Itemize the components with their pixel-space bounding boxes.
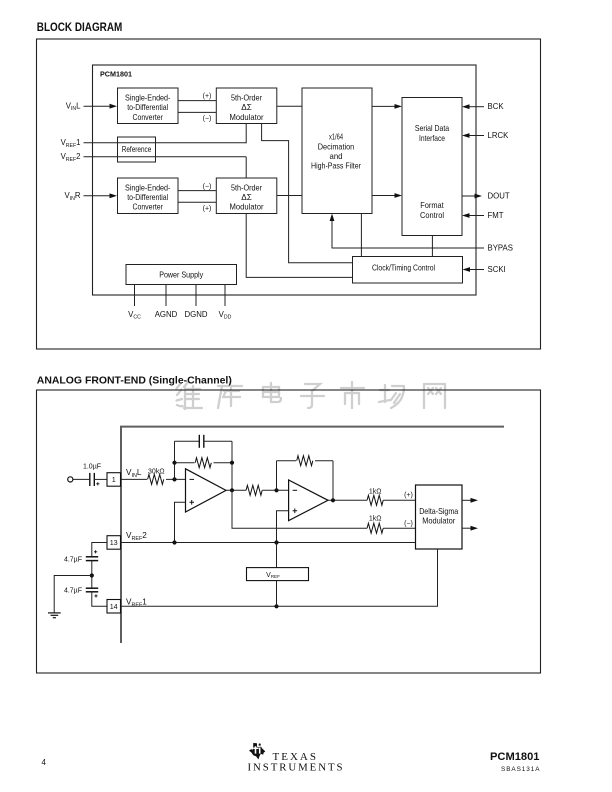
svg-text:(+): (+): [404, 492, 413, 499]
svg-text:Single-Ended-: Single-Ended-: [125, 94, 171, 103]
svg-text:4.7µF: 4.7µF: [64, 556, 82, 563]
wire opamp1 out down to minus line: [232, 490, 367, 528]
svg-text:SCKI: SCKI: [488, 265, 506, 274]
svg-text:Interface: Interface: [419, 134, 445, 143]
svg-text:1: 1: [112, 475, 116, 484]
svg-text:14: 14: [110, 602, 118, 611]
svg-text:and: and: [330, 152, 343, 161]
node VREF1: [61, 138, 247, 149]
svg-text:Serial Data: Serial Data: [415, 124, 450, 133]
svg-text:Clock/Timing Control: Clock/Timing Control: [372, 264, 435, 273]
wire pin1 to resistor: [121, 478, 148, 480]
svg-text:13: 13: [110, 538, 118, 547]
wire tee to ground: [54, 576, 92, 613]
svg-text:Modulator: Modulator: [230, 113, 264, 122]
wire cap to pin1: [94, 478, 107, 480]
capacitor C4 4.7uF: [64, 587, 98, 597]
svg-text:1kΩ: 1kΩ: [369, 488, 382, 495]
svg-text:to-Differential: to-Differential: [127, 103, 168, 112]
wire opamp1 output: [226, 489, 246, 491]
wire feedback vertical left: [174, 441, 176, 479]
node LRCK: [462, 131, 509, 140]
resistor R5 1k plus: [367, 488, 415, 505]
wire AGND pin: [165, 285, 167, 307]
svg-text:5th-Order: 5th-Order: [231, 94, 262, 103]
wire pin13 left to cap: [92, 543, 107, 558]
svg-text:INSTRUMENTS: INSTRUMENTS: [248, 762, 343, 774]
junction dot A: [172, 477, 176, 481]
svg-text:VCC: VCC: [128, 310, 141, 321]
clock U8 Clock/Timing Control: [353, 257, 463, 284]
svg-text:VREF2: VREF2: [61, 152, 81, 163]
svg-text:(−): (−): [203, 116, 212, 123]
wire filter to serial top: [372, 104, 402, 109]
svg-text:SBAS131A: SBAS131A: [501, 766, 540, 773]
wire filter to clock: [360, 214, 362, 257]
reference U3: [118, 137, 156, 162]
node VINL: [66, 102, 117, 113]
junction dot E: [274, 488, 278, 492]
junction dot H: [274, 540, 278, 544]
svg-text:5th-Order: 5th-Order: [231, 183, 262, 192]
wire opamp1 plus to vref2: [175, 502, 186, 542]
capacitor C2 feedback: [175, 435, 233, 448]
resistor R4 feedback2: [277, 456, 334, 466]
svg-text:(+): (+): [203, 93, 212, 100]
svg-text:Decimation: Decimation: [318, 142, 355, 151]
wire box1 to mod1 minus: [178, 112, 216, 122]
svg-text:Reference: Reference: [122, 145, 152, 154]
svg-text:Power Supply: Power Supply: [159, 271, 204, 280]
modulator U5 5th-Order DS (R): [216, 178, 276, 214]
wire VDD pin: [224, 285, 226, 307]
watermark: [177, 382, 446, 409]
wire feedback2 vertical right: [332, 461, 334, 501]
svg-text:Control: Control: [420, 211, 444, 220]
svg-text:PCM1801: PCM1801: [100, 69, 132, 78]
wire DGND pin: [195, 285, 197, 307]
node SCKI: [463, 265, 506, 274]
wire mod2 clock path: [246, 214, 352, 278]
wire opamp2 plus to vref2: [277, 511, 289, 543]
filter U6 decimation: [302, 88, 372, 214]
resistor R3 interstage: [246, 485, 262, 495]
modulator U12 Delta-Sigma: [416, 485, 463, 549]
wire r3 to opamp2: [262, 489, 288, 491]
wire box1 to mod1 plus: [178, 93, 216, 101]
node VREF2: [61, 152, 247, 163]
svg-text:Modulator: Modulator: [230, 203, 264, 212]
wire input to cap: [73, 478, 89, 480]
svg-text:Single-Ended-: Single-Ended-: [125, 183, 171, 192]
svg-text:ANALOG FRONT-END (Single-Chann: ANALOG FRONT-END (Single-Channel): [37, 376, 232, 387]
svg-text:(−): (−): [203, 183, 212, 190]
wire box2 to mod2 plus: [178, 202, 216, 212]
wire mod1 clock path: [262, 124, 353, 263]
svg-text:DOUT: DOUT: [488, 192, 510, 201]
wire feedback2 vertical left: [276, 461, 278, 491]
wire serial to clock: [431, 236, 433, 257]
wire mod2 to filter: [277, 195, 302, 197]
svg-text:VINL: VINL: [126, 468, 142, 479]
wire vref box top: [276, 543, 278, 568]
pin 1: [107, 473, 121, 487]
svg-text:VREF2: VREF2: [126, 531, 147, 542]
junction dot D: [230, 488, 234, 492]
junction dot G: [172, 540, 176, 544]
node DOUT: [462, 192, 510, 201]
svg-text:VINR: VINR: [64, 191, 80, 202]
wire resistor to opamp minus: [166, 478, 186, 480]
svg-text:(+): (+): [203, 206, 212, 213]
pin 13: [107, 536, 121, 550]
node FMT: [462, 211, 504, 220]
svg-text:LRCK: LRCK: [488, 131, 510, 140]
wire opamp2 output: [328, 499, 367, 501]
wire filter to serial bottom: [372, 193, 402, 198]
junction dot C: [230, 461, 234, 465]
svg-text:AGND: AGND: [155, 310, 178, 319]
frame 1: [37, 39, 541, 349]
wire cap3 to gnd tee: [91, 561, 93, 589]
interface U7 serial data / format control: [402, 98, 462, 236]
node BCK: [462, 102, 504, 111]
IC PCM1801 outline: [93, 65, 477, 295]
converter U4 Single-Ended-to-Differential (R): [118, 178, 179, 214]
wire box2 to mod2 minus: [178, 183, 216, 190]
pin 14: [107, 600, 121, 614]
wire cap4 to pin14: [92, 592, 107, 607]
wire ds out minus: [462, 526, 478, 531]
svg-text:BYPAS: BYPAS: [488, 243, 513, 252]
svg-text:Format: Format: [420, 201, 444, 210]
wire mod1 to filter: [277, 105, 302, 107]
junction dot J: [274, 604, 278, 608]
wire ds out plus: [462, 498, 478, 503]
svg-text:30kΩ: 30kΩ: [148, 469, 165, 476]
junction dot I: [90, 573, 94, 577]
op-amp U11: [289, 480, 328, 521]
capacitor C1 1.0uF: [83, 464, 101, 487]
svg-text:1.0µF: 1.0µF: [83, 464, 101, 471]
resistor R1 30k: [148, 469, 165, 485]
logo TI: [249, 743, 265, 760]
svg-text:PCM1801: PCM1801: [490, 751, 540, 763]
node VINR: [64, 191, 117, 202]
svg-text:ΔΣ: ΔΣ: [241, 103, 252, 112]
svg-text:(−): (−): [404, 520, 413, 527]
svg-text:ΔΣ: ΔΣ: [241, 193, 252, 202]
svg-text:Delta-Sigma: Delta-Sigma: [419, 507, 458, 516]
svg-text:High-Pass Filter: High-Pass Filter: [311, 162, 361, 171]
logo TEXAS INSTRUMENTS: [248, 751, 343, 774]
junction dot F: [331, 498, 335, 502]
svg-text:FMT: FMT: [488, 211, 504, 220]
svg-text:1kΩ: 1kΩ: [369, 515, 382, 522]
wire feedback vertical right: [231, 441, 233, 490]
svg-text:Modulator: Modulator: [422, 517, 455, 526]
power U9 Power Supply: [126, 265, 237, 285]
svg-text:DGND: DGND: [185, 310, 208, 319]
ground: [48, 613, 61, 618]
wire vref1 up to mod1: [245, 124, 247, 144]
wire vref2 down to mod2: [245, 157, 247, 178]
capacitor C3 4.7uF: [64, 550, 98, 563]
svg-text:BCK: BCK: [488, 102, 505, 111]
op-amp U10: [186, 469, 227, 512]
modulator U2 5th-Order DS (L): [216, 88, 276, 124]
svg-text:VREF1: VREF1: [61, 138, 81, 149]
wire vref2 rail: [121, 542, 416, 544]
junction dot B: [172, 461, 176, 465]
svg-text:Converter: Converter: [132, 203, 163, 212]
svg-text:VINL: VINL: [66, 102, 81, 113]
svg-text:VDD: VDD: [219, 310, 232, 321]
converter U1 Single-Ended-to-Differential (L): [118, 88, 179, 124]
frame 2: [37, 390, 541, 673]
resistor R6 1k minus: [367, 515, 415, 533]
svg-text:BLOCK DIAGRAM: BLOCK DIAGRAM: [37, 22, 123, 34]
input terminal: [68, 477, 73, 482]
svg-text:x1/64: x1/64: [329, 133, 343, 142]
svg-text:4.7µF: 4.7µF: [64, 587, 82, 594]
IC boundary lines: [121, 427, 504, 643]
resistor R2 feedback: [175, 458, 233, 468]
wire vref1 rail: [121, 549, 438, 606]
reference U13 VREF box: [247, 568, 309, 581]
wire VCC pin: [134, 285, 136, 307]
svg-text:to-Differential: to-Differential: [127, 193, 168, 202]
svg-text:Converter: Converter: [132, 113, 163, 122]
wire vref box bottom: [276, 581, 278, 607]
svg-text:4: 4: [42, 758, 47, 767]
wire clock up-arrow into filter + BYPAS line: [330, 214, 484, 249]
